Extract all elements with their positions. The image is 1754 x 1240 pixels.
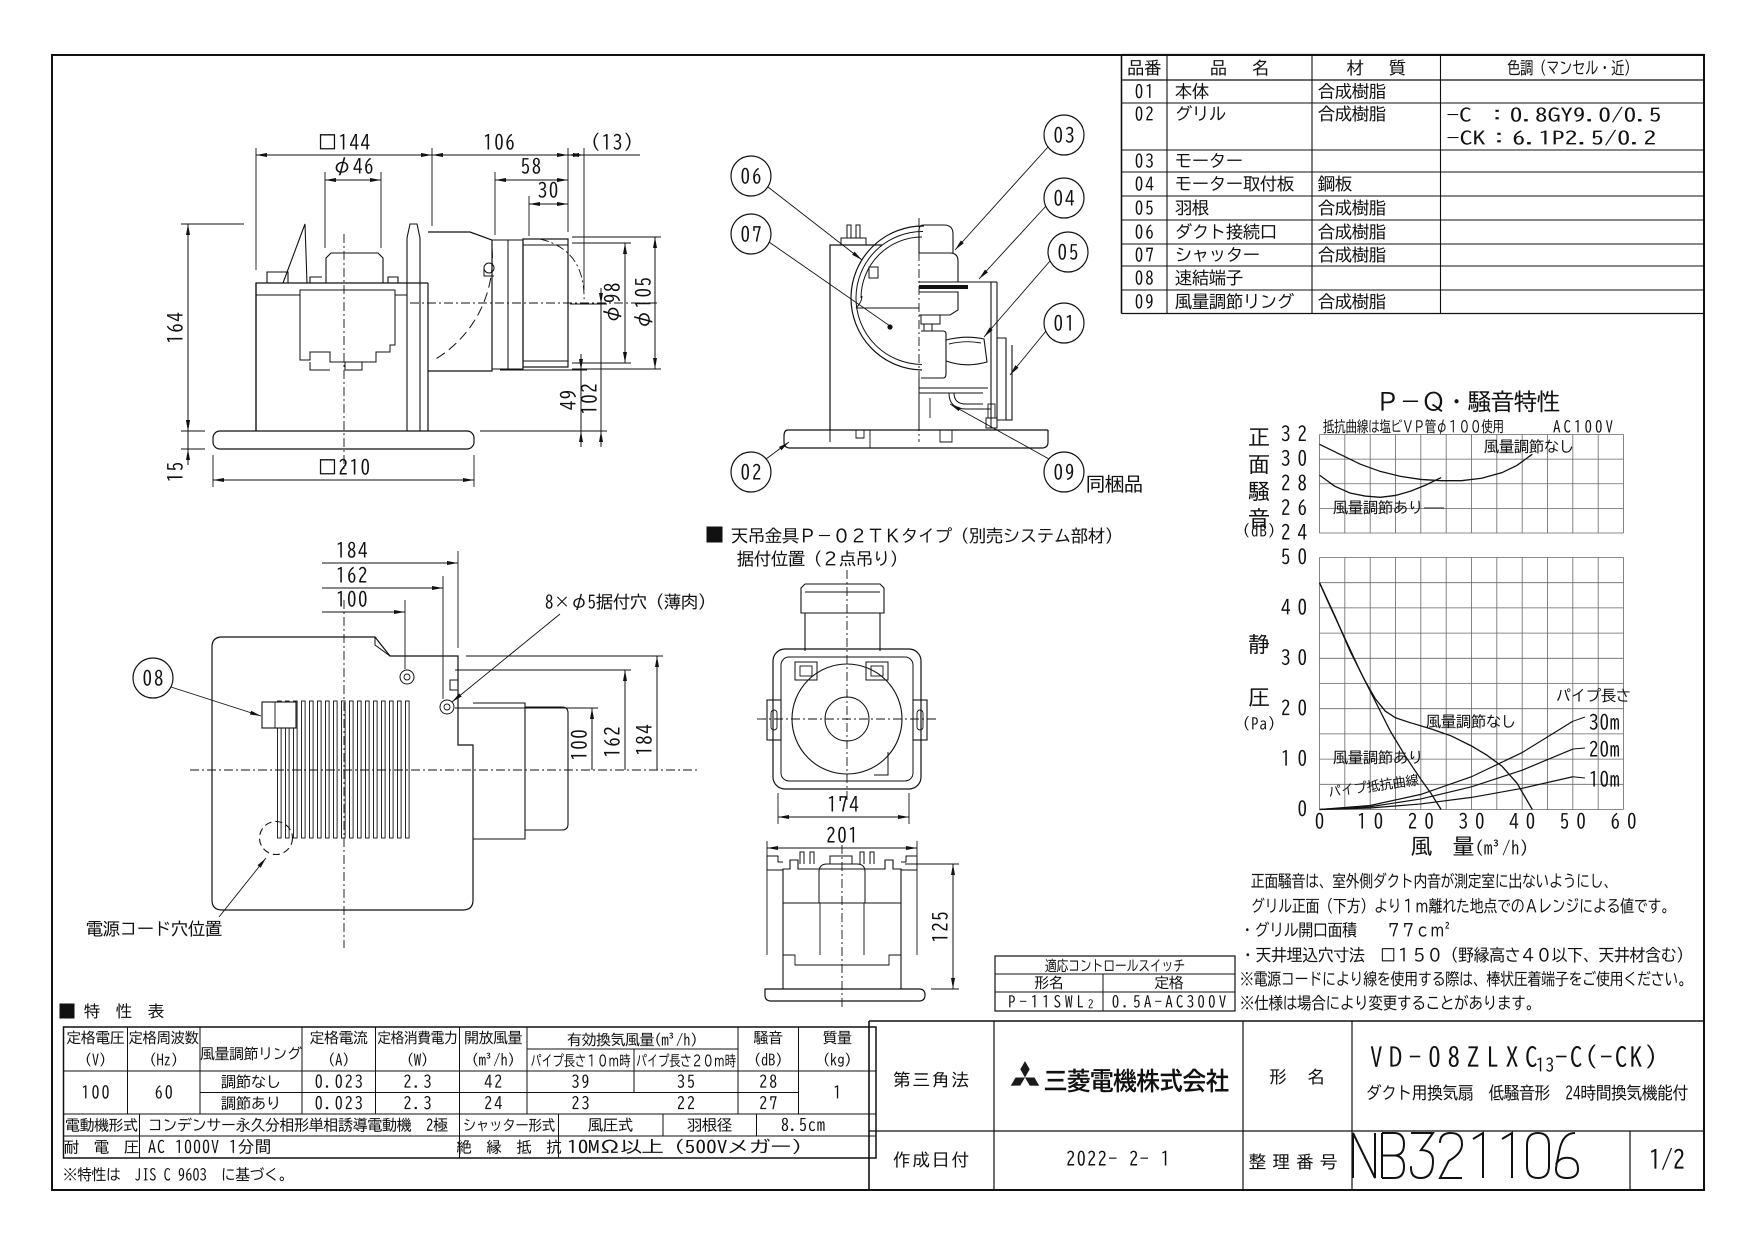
model number VD-08ZLXC13-C(-CK) (1371, 1046, 1537, 1067)
dimension phi46 (324, 172, 326, 248)
section view: motor shaft and hub (921, 315, 940, 324)
side view: right mounting plate (407, 224, 420, 283)
section view: fan blade profile (946, 337, 987, 365)
front view dim 125 (905, 863, 959, 865)
lower chart x axis labels flow (1316, 813, 1324, 829)
section view: fan blade root (921, 331, 946, 378)
upper chart label no-adjust (1484, 439, 1572, 453)
control switch table grid (995, 956, 1235, 1011)
lower chart pipe curve 20m (1320, 749, 1573, 809)
front view: centerline (841, 845, 843, 1010)
balloon 05 (1048, 232, 1088, 272)
parts table row 09 (1136, 294, 1153, 309)
grille view: screw hole right (440, 700, 454, 714)
grille dim 100 top (404, 600, 406, 669)
section view: grille clip details on flange (856, 430, 864, 438)
dimension 58 (494, 172, 496, 235)
top view: inner housing (781, 657, 913, 781)
dimension square210 (212, 455, 214, 487)
Mitsubishi three-diamond logo (1020, 1061, 1029, 1077)
lower chart PQ curve no-adjust (1320, 583, 1533, 810)
top view: scroll circle (792, 664, 902, 774)
dimension 102 vertical (570, 303, 607, 305)
dimension (13) overhang (583, 148, 585, 290)
label 10m (1591, 771, 1619, 787)
spec table header texts (67, 1031, 124, 1045)
section view: damper ring bolt 09 (990, 371, 992, 428)
balloon 04 (1044, 178, 1084, 218)
grille dim 100 right vertical (455, 707, 598, 709)
top view: body outer rounded square (773, 649, 921, 789)
spec table JIS note (64, 1167, 284, 1181)
side view: duct middle ring (492, 240, 523, 369)
side view: body top bumps (267, 272, 288, 283)
section view: leader dot for 07 (887, 324, 892, 329)
balloon 03 (1044, 115, 1084, 155)
front view: upper motor dome (819, 864, 865, 903)
side view: damper ring phantom arc at pipe end (540, 239, 584, 302)
section view: vertical centerline (918, 218, 920, 442)
label PQ with-adjust (1333, 750, 1420, 764)
grille view: centerline horizontal (190, 769, 700, 771)
parts table row 03 (1136, 153, 1153, 167)
Mitsubishi Electric company name (1045, 1069, 1229, 1093)
title block date value (1067, 1151, 1166, 1166)
upper chart curve no-adjust (1320, 444, 1533, 480)
lower chart y axis labels Pa (1299, 800, 1307, 816)
vertical axis label static pressure Pa (1249, 634, 1269, 654)
grille view: vent slats (278, 701, 282, 838)
section view: duct spigot middle arc (856, 231, 923, 364)
section view: motor upper block (919, 253, 958, 282)
parts table row 08 (1136, 270, 1153, 284)
balloon 07 (731, 214, 771, 254)
lower chart pipe curve 10m (1320, 777, 1573, 810)
parts table header (1128, 60, 1160, 76)
side view: body box (256, 283, 428, 431)
top view: top clips (795, 662, 817, 680)
top view: duct stub (801, 584, 884, 651)
label power cord hole position (87, 920, 222, 936)
front view: bottom flange (765, 989, 925, 1001)
model subtitle duct fan low noise 24h (1367, 1084, 1687, 1101)
side view: screw boss on duct (484, 263, 494, 273)
front view: side tabs (767, 856, 783, 870)
dimension 30 (528, 196, 530, 236)
top view: right mounting tab (913, 700, 927, 740)
top view: centerlines (846, 570, 848, 800)
top view: scroll tongue (874, 752, 888, 775)
grille view: duct pipe right end (525, 707, 568, 830)
control switch table text (1045, 959, 1184, 973)
label pipe length (1557, 688, 1629, 703)
upper chart grid (1319, 435, 1321, 534)
front view dim 201 (766, 841, 768, 955)
side view: duct pipe (523, 239, 568, 367)
balloon 06 (731, 156, 771, 196)
label PQ no-adjust (1426, 714, 1514, 728)
title block third angle projection (894, 1071, 969, 1087)
spec table title (60, 1004, 74, 1018)
section view: terminal pins on top (847, 225, 851, 238)
section view: scroll interior line (856, 307, 919, 309)
grille dim 184 right vertical (466, 655, 663, 657)
chart subtitle AC100V (1553, 420, 1612, 433)
grille view: body outline with notched corner (212, 637, 473, 910)
grille dim 162 top (442, 576, 444, 699)
dimension 49 vertical (500, 369, 587, 371)
front view: body (783, 860, 901, 989)
section view: lower housing wall (918, 378, 920, 430)
dimension 15 vertical (181, 448, 205, 450)
label pipe resistance curve (1328, 773, 1419, 798)
dimension phi98 vertical (572, 242, 631, 244)
section view: shutter plate and curl (919, 387, 988, 389)
side view: dashed shutter arc inside duct (434, 248, 492, 360)
side view: inner motor outline steps (256, 290, 407, 295)
grille view: centerline vertical (343, 600, 345, 948)
dimension 106 (567, 148, 569, 232)
drawing number NB321106 stencil (1353, 1133, 1375, 1178)
label 8x phi5 mounting holes (546, 593, 704, 610)
section view: body outline left (830, 245, 882, 430)
section view: motor top dome (919, 225, 953, 253)
grille dim 184 top (457, 551, 459, 648)
side view: vertical centerline of body (343, 234, 345, 470)
title block seiri bangou label (1249, 1153, 1336, 1169)
top view: left mounting tab (767, 700, 781, 740)
spec table data rows (83, 1085, 109, 1099)
grille view: screw hole top (400, 670, 414, 684)
grille dim 162 right vertical (455, 669, 631, 671)
side view: ceiling flange (213, 431, 474, 449)
front view: top pins (800, 852, 804, 864)
parts table row 06 (1136, 224, 1153, 238)
balloon 09 with note (1044, 452, 1084, 492)
section view: small boss inside (869, 267, 878, 278)
balloon 02 (731, 452, 771, 492)
chart title P-Q noise characteristics (1381, 390, 1559, 412)
parts table grid (1121, 55, 1123, 314)
top view dim 174 (777, 793, 779, 824)
side view: duct elbow outline (428, 232, 492, 371)
label 30m (1590, 714, 1619, 730)
grille view: power cord hole dashed circle (260, 822, 293, 855)
dimension 164 vertical (181, 223, 244, 225)
spec table grid (64, 1027, 877, 1158)
parts table row 01 (1136, 84, 1151, 98)
note: ceiling bracket P-02TK (707, 527, 722, 542)
spec table motor rows (66, 1118, 137, 1132)
x axis title flow volume (1411, 837, 1431, 856)
section view: casing right wall 01 (958, 282, 991, 420)
upper chart label with-adjust (1333, 500, 1420, 514)
upper chart y axis labels dB (1282, 524, 1307, 540)
top view: hub circle (825, 697, 869, 741)
lower chart PQ curve with-adjust (1320, 583, 1442, 810)
notes block under chart (1251, 873, 1607, 889)
section view: bottom flange plate (788, 429, 1048, 431)
balloon 01 (1044, 303, 1084, 343)
grille view: corner step detail (375, 637, 390, 656)
parts table row 05 (1136, 200, 1153, 214)
section view: stator black bar (919, 285, 968, 289)
upper chart curve with-adjust (1320, 475, 1442, 497)
side view: hanging bracket triangle (283, 224, 307, 283)
chart subtitle resistance curve note (1323, 419, 1502, 434)
section view: casing outer step right (997, 338, 1006, 420)
lower chart grid (1319, 558, 1321, 810)
label 20m (1590, 741, 1619, 757)
section view: motor lower block (919, 292, 958, 315)
title block grid (868, 1021, 870, 1190)
sheet number 1/2 (1651, 1148, 1683, 1170)
section view: duct spigot inner top arc (861, 237, 922, 298)
balloon 08 (133, 658, 173, 698)
parts table row 02 (1136, 106, 1153, 120)
grille view: duct flange right (473, 703, 525, 839)
dimension phi105 vertical (572, 236, 661, 238)
dimension square144 horizontal (255, 148, 257, 270)
parts table row 07 (1136, 247, 1153, 261)
lower chart pipe curve 30m (1320, 721, 1573, 809)
grille view: terminal box 08 (262, 702, 296, 728)
side view: horizontal centerline of duct (410, 302, 660, 304)
vertical axis label front noise dB (1249, 428, 1269, 445)
title block model name label (1270, 1068, 1323, 1084)
parts table row 04 (1136, 176, 1154, 190)
title block creation date label (894, 1151, 969, 1167)
section view: duct spigot outer arc (851, 226, 924, 370)
